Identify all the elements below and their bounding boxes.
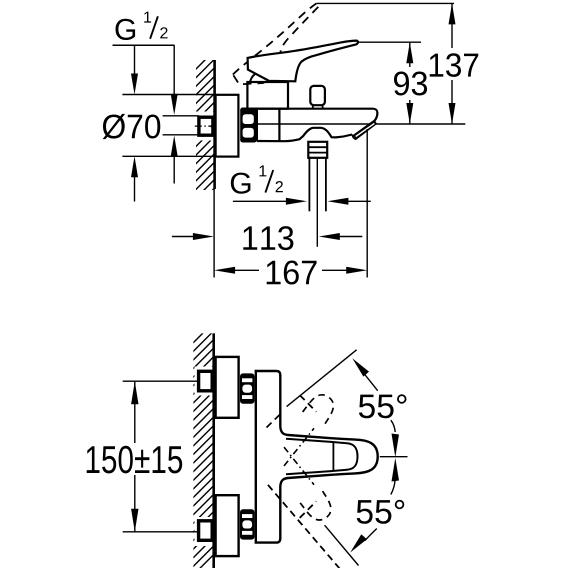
supply fitting in wall (G 1/2): [199, 117, 213, 135]
handle rotated -55 dashed edge line (long): [268, 485, 340, 568]
wall hatching (upper): [186, 40, 225, 225]
union nut (side view): [240, 108, 257, 143]
top reference line (raised handle): [317, 2, 454, 4]
lower supply fitting (lower drawing): [199, 521, 213, 541]
label G 1/2 (top left): [113, 12, 175, 46]
spout aerator (mousseur): [353, 120, 377, 140]
leader from G1/2 to fitting top line (down arrow): [173, 45, 175, 101]
dimension 93: [409, 42, 411, 67]
cartridge housing rect: [247, 82, 288, 109]
fitting centerline (dash-dot): [195, 125, 218, 127]
lever handle (solid, side view): [248, 41, 358, 82]
faucet body (side view): [247, 109, 465, 142]
dashed cap +55 (rotated handle end, upper): [303, 390, 339, 427]
upper 55° dimension: [352, 358, 369, 376]
dashed pad line -55: [300, 501, 317, 518]
white gaps around wall fittings (lower): [195, 367, 214, 396]
lower union nut (top view): [240, 509, 255, 539]
hose thread dimension arrows: [233, 200, 290, 202]
55° angle side line (lower): [325, 525, 359, 565]
wall extension line down to 167 dimension: [213, 189, 215, 278]
upper union nut (top view): [240, 373, 255, 403]
upper supply fitting (lower drawing): [199, 371, 213, 391]
body top edge: [247, 109, 377, 124]
body left edge: [256, 109, 258, 142]
lever handle raised position (dashed): [224, 2, 339, 94]
escutcheon top reference line: [122, 94, 215, 96]
shower hose: [308, 158, 310, 212]
fitting top reference line: [163, 115, 199, 117]
hose center extension line: [316, 158, 318, 247]
upper escutcheon (top view): [216, 357, 239, 418]
cartridge dome arc: [250, 73, 258, 82]
dimension 150±15: [123, 380, 199, 382]
faucet body (top view): [256, 371, 280, 543]
reference line at lever top: [358, 41, 422, 43]
body section divider: [278, 109, 280, 142]
lower escutcheon (top view): [216, 495, 239, 556]
escutcheon bottom reference line: [122, 155, 215, 157]
dimension 167: [214, 267, 235, 274]
fitting bottom reference line: [163, 134, 199, 136]
wall hatching (lower): [184, 312, 224, 568]
body underside with shower-outlet dome: [257, 128, 352, 141]
white gap around wall fitting: [194, 112, 215, 141]
label G 1/2 (hose): [231, 165, 283, 193]
wall face line (upper): [213, 60, 216, 189]
escutcheon (wall rosette, side view): [216, 95, 239, 157]
dashed cap -55 (rotated handle end, lower): [300, 488, 336, 525]
spout tip extension line: [366, 129, 368, 278]
handle rotated +55 dashed edge line: [267, 413, 282, 428]
internal bore line (continues right as reference line): [257, 123, 465, 125]
dimension 137: [451, 3, 453, 48]
dimension 113: [172, 236, 198, 238]
handle (top view, solid): [280, 427, 377, 486]
pivot axis dash-dot marks: [284, 428, 314, 466]
dashed pad line +55: [300, 395, 317, 412]
wall face line (lower): [212, 333, 215, 568]
leader from G1/2 to escutcheon top line (down arrow): [134, 45, 136, 80]
up arrow to fitting bottom line: [173, 150, 175, 184]
label Ø70: [103, 114, 161, 139]
lower 55° dimension: [392, 458, 400, 482]
shower hose nut: [308, 142, 327, 158]
up arrow to escutcheon bottom line: [134, 171, 136, 202]
centerline at handle tip: [380, 456, 408, 458]
55° angle side line (upper): [287, 350, 357, 407]
diverter knob: [310, 86, 325, 105]
